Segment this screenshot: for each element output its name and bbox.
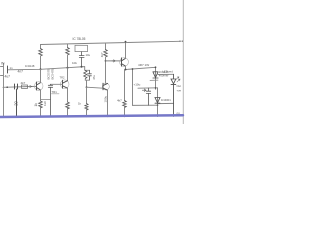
wire R8 to ground xyxy=(86,110,88,117)
transistor Q4 xyxy=(120,58,129,67)
wire top link line xyxy=(138,87,158,89)
wire drop x132.5 xyxy=(132,69,134,105)
svg-text:4k7: 4k7 xyxy=(117,98,122,102)
wire ground rail blue xyxy=(0,115,183,117)
wire Q2 base line xyxy=(51,83,63,85)
capacitor C4 xyxy=(88,70,92,80)
svg-text:4u7: 4u7 xyxy=(5,75,11,79)
svg-text:IC 78L05: IC 78L05 xyxy=(73,37,86,41)
wire rail drop R4 xyxy=(105,44,107,50)
svg-text:1N4148: 1N4148 xyxy=(25,64,35,68)
node line B junction xyxy=(6,86,8,88)
resistor R9 xyxy=(123,101,127,108)
capacitor C2 xyxy=(48,84,52,117)
node B junction xyxy=(67,67,69,69)
svg-text:1k0: 1k0 xyxy=(43,101,47,106)
wire lower LED link xyxy=(158,102,174,104)
wire base line Q3 xyxy=(87,87,104,88)
wire zener lower stub xyxy=(150,79,158,81)
svg-text:100u: 100u xyxy=(104,95,108,102)
node F junction xyxy=(125,69,127,71)
resistor R7 xyxy=(84,71,87,79)
node E junction xyxy=(105,60,107,62)
wire Q4 emitter node xyxy=(126,66,156,69)
node G junction xyxy=(132,68,134,70)
transistor Q3 xyxy=(102,83,109,90)
wire line B lower signal xyxy=(3,85,36,88)
node C junction xyxy=(81,66,83,68)
svg-text:LED red: LED red xyxy=(163,70,174,74)
svg-text:4k7: 4k7 xyxy=(21,81,26,85)
svg-text:47u: 47u xyxy=(92,75,96,80)
svg-text:4k7: 4k7 xyxy=(100,52,104,57)
node H junction xyxy=(155,66,157,68)
wire emitter link xyxy=(41,99,51,101)
wire Q2 emitter down xyxy=(67,88,69,102)
wire R1 to node A xyxy=(40,56,42,69)
node supply arrow dots xyxy=(179,40,181,42)
transistor Q1 xyxy=(34,82,43,91)
wire LED feed xyxy=(158,73,173,75)
capacitor C5 xyxy=(146,88,150,105)
diode D2 xyxy=(155,98,160,104)
wire node B to Q2 collector xyxy=(67,68,69,81)
wire RC pair join xyxy=(85,79,89,87)
node arrow at C5 xyxy=(142,89,146,91)
regulator IC1 box xyxy=(75,45,88,51)
resistor R3 xyxy=(66,48,70,56)
wire R3 to line A node xyxy=(67,56,69,68)
wire top supply rail xyxy=(41,41,180,44)
wire stub bias xyxy=(52,93,60,95)
svg-text:1k: 1k xyxy=(78,102,82,106)
wire corner to RC pair xyxy=(85,67,90,71)
svg-text:1N4001: 1N4001 xyxy=(161,98,171,102)
svg-text:4n7: 4n7 xyxy=(18,70,24,74)
wire Q3 emitter to ground xyxy=(107,90,109,117)
wire emitter drop to R9 xyxy=(124,70,126,101)
capacitor C1 xyxy=(15,84,18,116)
resistor R1 xyxy=(39,49,43,57)
wire signal line A xyxy=(8,67,85,70)
resistor R2 series box xyxy=(22,85,28,88)
resistor R8 xyxy=(85,104,88,111)
wire right main vertical xyxy=(155,67,157,89)
wire Q1 collector up xyxy=(40,69,42,82)
capacitor C3 under regulator xyxy=(79,52,84,67)
border right edge xyxy=(182,0,184,124)
svg-text:BC547B: BC547B xyxy=(51,69,55,80)
wire Q1 emitter down xyxy=(40,90,42,101)
resistor R6 xyxy=(66,102,70,109)
wire Q4 base line xyxy=(106,60,122,62)
node rail junction xyxy=(125,41,127,43)
svg-text:10k: 10k xyxy=(72,61,77,65)
svg-text:1k: 1k xyxy=(34,103,38,107)
svg-text:+ve: +ve xyxy=(177,89,182,93)
svg-text:IN: IN xyxy=(1,62,5,66)
wire rail left drop to R1 xyxy=(40,45,42,49)
svg-text:Out: Out xyxy=(177,84,182,88)
wire R6 to ground xyxy=(67,108,69,117)
wire R4 down to Q3 xyxy=(105,58,107,84)
wire bottom link line xyxy=(133,104,158,106)
resistor R5 xyxy=(39,101,43,108)
LED arrows xyxy=(176,77,180,82)
wire R5 to ground xyxy=(40,107,42,117)
svg-text:1n: 1n xyxy=(10,66,14,70)
node A junction xyxy=(40,68,42,70)
wire rail drop R2a xyxy=(67,44,69,47)
node arrow line B xyxy=(30,86,32,88)
svg-text:TR2: TR2 xyxy=(60,75,65,79)
wire bias to ground xyxy=(86,87,88,103)
wire Q4 collector to rail xyxy=(125,42,127,59)
node D junction xyxy=(86,86,88,88)
wire right lower vertical xyxy=(157,88,159,117)
node arrow on base line xyxy=(112,60,115,62)
transistor Q2 xyxy=(60,80,69,89)
svg-text:4R7 1W: 4R7 1W xyxy=(138,63,149,67)
svg-text:+10u: +10u xyxy=(134,83,141,87)
svg-text:TR1: TR1 xyxy=(52,90,58,94)
connector J1 input xyxy=(1,64,4,117)
svg-text:10u: 10u xyxy=(86,53,91,57)
LED D3 xyxy=(171,74,176,116)
wire R9 to ground xyxy=(124,107,126,117)
diode D1 zener xyxy=(153,72,158,78)
resistor R4 xyxy=(104,50,108,58)
svg-text:20: 20 xyxy=(13,100,18,105)
